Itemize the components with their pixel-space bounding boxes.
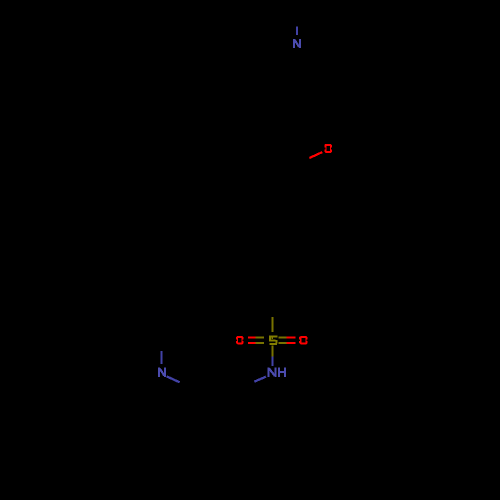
wire: N-methyl bond half above left nitrogen [160,351,162,364]
wire: right S=O double bond, lower line, S half [278,342,286,344]
wire: S-methyl bond half above sulfur [271,317,273,332]
node N (top amine nitrogen label) [293,39,301,48]
wire: S-N bond, N half [271,357,273,366]
wire: left S=O double bond, lower line, S half [256,342,264,344]
wire: S-N bond, S half [271,346,273,357]
wire: N-C bond half from left N down-right to carbon [167,376,180,382]
node S (sulfonyl sulfur label) [269,335,278,345]
wire: C-O ether bond half going down-left from O [309,152,322,158]
wire: left S=O double bond, upper line, S half [256,336,264,338]
wire: right S=O double bond, upper line, S half [278,336,286,338]
wire: N-C bond half from NH down-left to carbon [254,377,266,382]
wire: left S=O double bond, lower line, O half [248,342,256,344]
wire: N-methyl bond half above top nitrogen [296,26,298,34]
node N (left amine nitrogen label) [158,367,166,377]
wire: left S=O double bond, upper line, O half [248,336,256,338]
wire: right S=O double bond, lower line, O half [286,342,295,344]
node H of sulfonamide NH label [278,367,286,377]
node O (ether oxygen label) [324,144,332,153]
node O (right sulfonyl oxygen label) [299,336,308,344]
wire: right S=O double bond, upper line, O half [286,336,295,338]
node O (left sulfonyl oxygen label) [236,336,244,344]
node N of sulfonamide NH label [267,367,276,377]
